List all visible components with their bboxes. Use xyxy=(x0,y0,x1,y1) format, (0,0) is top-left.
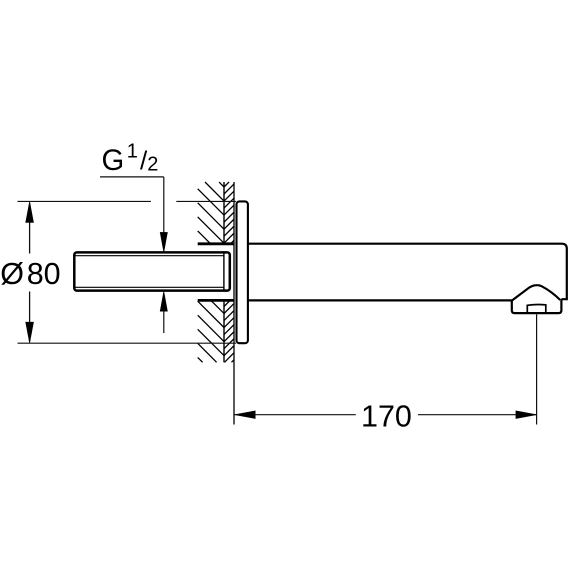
svg-text:170: 170 xyxy=(361,399,412,433)
svg-text:Ø: Ø xyxy=(0,257,24,291)
arrow 170 left xyxy=(235,411,255,419)
outlet housing xyxy=(512,299,562,313)
inlet pipe G1/2 (outer contour) xyxy=(74,252,230,290)
arrow 170 right xyxy=(516,411,536,419)
wall right line / 170 left extension line xyxy=(233,182,235,425)
dim O80 line xyxy=(29,203,31,342)
wall hatch (herringbone) xyxy=(198,182,235,362)
dim O80 extension lines xyxy=(18,201,237,343)
wall hole edges / tube behind wall xyxy=(198,244,234,301)
spout tube outline xyxy=(248,244,567,300)
arrow O80 down xyxy=(26,322,34,343)
inlet pipe end face line xyxy=(223,252,225,290)
dim G1/2 leader xyxy=(100,177,164,333)
wall flange (escutcheon, side view) xyxy=(237,201,248,343)
mousseur / aerator xyxy=(527,304,546,313)
outlet dome xyxy=(512,285,560,300)
dim 170 line xyxy=(235,314,537,424)
inlet pipe inner thread lines xyxy=(76,256,224,288)
arrow O80 up xyxy=(26,202,34,223)
arrow G1/2 bottom (up) xyxy=(160,291,167,311)
spout tube bottom edge xyxy=(248,299,512,301)
svg-text:80: 80 xyxy=(27,257,61,291)
wall left line xyxy=(223,182,225,362)
svg-text:1: 1 xyxy=(127,140,138,162)
arrow G1/2 top (down) xyxy=(160,232,167,252)
svg-text:2: 2 xyxy=(147,154,158,176)
svg-text:G: G xyxy=(102,145,125,177)
